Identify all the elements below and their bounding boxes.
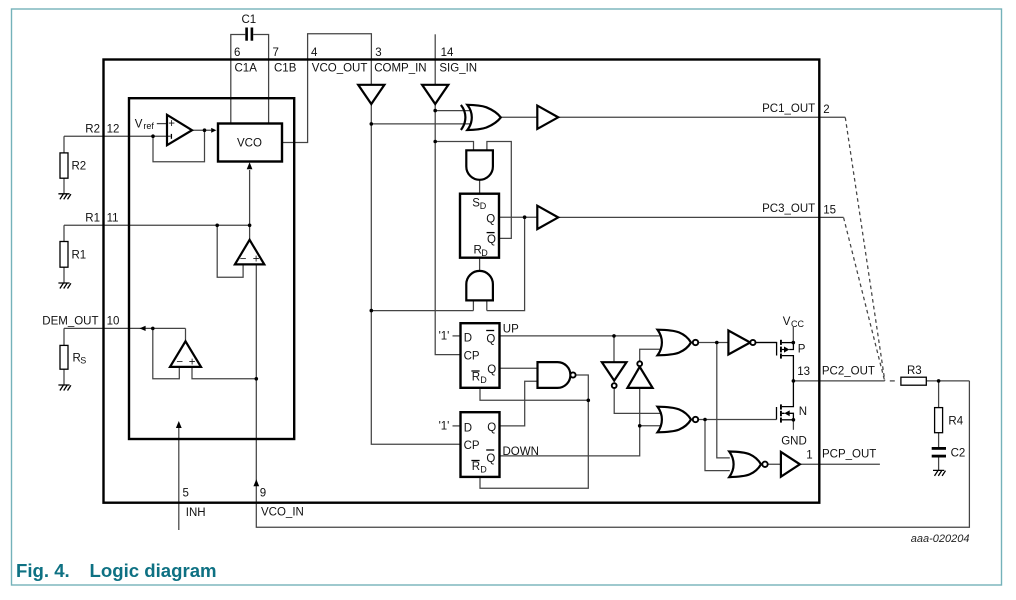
svg-text:−: − — [240, 254, 247, 266]
svg-text:D: D — [480, 375, 487, 385]
svg-text:Q: Q — [486, 333, 495, 345]
svg-text:C2: C2 — [951, 448, 966, 460]
svg-text:SIG_IN: SIG_IN — [439, 63, 477, 75]
svg-text:aaa-020204: aaa-020204 — [911, 533, 970, 545]
svg-text:−: − — [176, 357, 183, 369]
svg-text:D: D — [464, 422, 472, 434]
svg-text:15: 15 — [823, 204, 836, 216]
svg-text:ref: ref — [143, 121, 154, 131]
svg-text:D: D — [480, 465, 487, 475]
svg-text:V: V — [135, 119, 143, 131]
svg-text:'1': '1' — [439, 331, 450, 343]
svg-text:PC1_OUT: PC1_OUT — [762, 103, 815, 115]
svg-text:1: 1 — [806, 449, 812, 461]
svg-text:Q: Q — [487, 234, 496, 246]
svg-text:12: 12 — [107, 123, 120, 135]
svg-text:P: P — [798, 343, 806, 355]
svg-text:+: + — [189, 356, 196, 368]
svg-text:VCO_OUT: VCO_OUT — [312, 63, 368, 75]
svg-text:Fig. 4.: Fig. 4. — [16, 560, 70, 581]
svg-text:2: 2 — [823, 104, 829, 116]
svg-text:VCO_IN: VCO_IN — [261, 507, 304, 519]
svg-text:C1: C1 — [242, 14, 257, 26]
svg-text:4: 4 — [311, 47, 318, 59]
svg-text:D: D — [480, 201, 487, 211]
svg-text:DEM_OUT: DEM_OUT — [42, 315, 98, 327]
svg-text:PC2_OUT: PC2_OUT — [822, 365, 875, 377]
svg-text:INH: INH — [186, 507, 206, 519]
svg-text:N: N — [799, 406, 807, 418]
svg-text:+: + — [168, 118, 175, 130]
svg-text:R4: R4 — [948, 416, 963, 428]
svg-text:C1A: C1A — [235, 63, 258, 75]
svg-text:5: 5 — [183, 488, 189, 500]
svg-text:D: D — [464, 333, 472, 345]
svg-text:R1: R1 — [85, 213, 100, 225]
svg-text:D: D — [481, 248, 488, 258]
svg-text:Logic diagram: Logic diagram — [90, 560, 217, 581]
svg-text:CP: CP — [464, 351, 480, 363]
svg-text:CC: CC — [791, 319, 804, 329]
svg-text:COMP_IN: COMP_IN — [374, 63, 426, 75]
svg-text:6: 6 — [234, 47, 240, 59]
svg-text:Q: Q — [486, 213, 495, 225]
svg-text:S: S — [80, 355, 86, 365]
svg-text:'1': '1' — [439, 421, 450, 433]
svg-text:13: 13 — [797, 366, 810, 378]
svg-text:+: + — [253, 253, 260, 265]
svg-text:DOWN: DOWN — [503, 446, 539, 458]
svg-text:R: R — [472, 371, 480, 383]
svg-text:10: 10 — [107, 315, 120, 327]
svg-text:R2: R2 — [85, 123, 100, 135]
svg-text:7: 7 — [273, 47, 279, 59]
svg-text:14: 14 — [441, 47, 454, 59]
svg-text:11: 11 — [107, 213, 119, 225]
svg-text:R: R — [472, 461, 480, 473]
svg-text:C1B: C1B — [274, 63, 297, 75]
svg-text:R1: R1 — [72, 249, 87, 261]
svg-text:PCP_OUT: PCP_OUT — [822, 448, 876, 460]
svg-text:V: V — [783, 316, 791, 328]
svg-text:R3: R3 — [907, 365, 922, 377]
svg-text:9: 9 — [260, 488, 266, 500]
svg-text:PC3_OUT: PC3_OUT — [762, 203, 815, 215]
svg-text:Q: Q — [487, 422, 496, 434]
svg-text:CP: CP — [464, 440, 480, 452]
svg-text:UP: UP — [503, 323, 519, 335]
svg-text:Q: Q — [487, 364, 496, 376]
svg-text:3: 3 — [375, 47, 381, 59]
svg-text:Q: Q — [486, 453, 495, 465]
svg-text:VCO: VCO — [237, 138, 262, 150]
svg-text:GND: GND — [781, 435, 807, 447]
svg-text:R2: R2 — [72, 161, 87, 173]
